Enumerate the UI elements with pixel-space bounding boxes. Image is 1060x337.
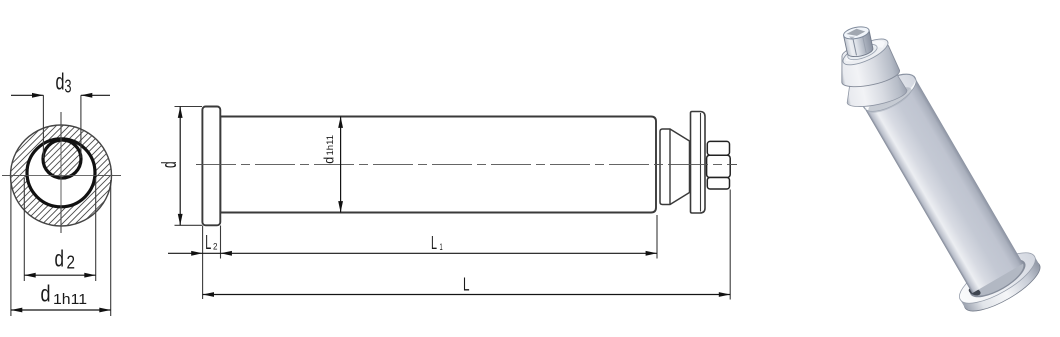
d dimension line — [179, 107, 181, 226]
d extension line bottom — [175, 224, 203, 226]
L arrowhead left — [203, 292, 214, 297]
d3 extension line right — [80, 95, 82, 158]
L1 arrowhead right — [646, 251, 657, 256]
cylinder bottom junction — [966, 254, 1028, 303]
cylinder top face — [858, 67, 922, 118]
svg-text:L: L — [431, 233, 437, 253]
cone transition line — [669, 129, 671, 205]
nut band middle — [707, 155, 731, 177]
L2 extension line right — [220, 226, 222, 259]
body — [220, 117, 656, 213]
small circle d3 (hatched) — [43, 140, 81, 178]
flange head bottom — [958, 252, 1046, 319]
svg-text:2: 2 — [67, 253, 76, 273]
lower seat ring — [843, 69, 909, 111]
d2 arrowhead right — [84, 273, 95, 278]
svg-text:L: L — [463, 274, 470, 294]
svg-text:2: 2 — [213, 242, 218, 252]
d2 extension line right — [95, 178, 97, 281]
d1h11 body arrowhead bottom — [338, 201, 343, 212]
d1h11 extension line right — [110, 180, 112, 316]
shadow of cap on cylinder top face — [865, 82, 915, 117]
L1 arrowhead left — [221, 251, 232, 256]
svg-text:d: d — [321, 157, 337, 164]
outer circle d1h11 (hatched section) — [11, 125, 112, 226]
L extension line right — [729, 190, 731, 300]
bore circle d2 — [27, 139, 95, 207]
L arrowhead right — [719, 292, 730, 297]
washer under nut — [846, 41, 879, 63]
clamp cap assembly (leaning ~12deg) — [831, 20, 908, 111]
d1h11 extension line left — [10, 180, 12, 316]
washer face line — [700, 113, 702, 212]
flange head top face — [953, 243, 1042, 312]
L1 dimension line — [221, 252, 658, 254]
vertical centerline overdraw — [60, 112, 62, 233]
L2 outside dimension line — [168, 252, 203, 254]
L2/L extension line left — [202, 226, 204, 300]
svg-text:1h11: 1h11 — [53, 291, 87, 308]
d2 arrowhead left — [24, 273, 35, 278]
hex nut top face — [842, 25, 870, 41]
head — [202, 107, 220, 226]
horizontal centerline main — [2, 175, 121, 177]
svg-text:L: L — [205, 232, 211, 254]
d1h11 dimension line — [11, 309, 111, 311]
svg-text:d: d — [41, 281, 51, 307]
centerline overdraw middle — [196, 164, 737, 166]
cone top face — [840, 34, 892, 70]
L2 arrowhead — [191, 251, 202, 256]
svg-text:1: 1 — [440, 242, 443, 252]
d arrowhead bottom — [178, 214, 183, 225]
cylinder body — [864, 78, 1023, 293]
d1h11 body dimension line — [340, 117, 342, 213]
L2 dimension line — [203, 252, 221, 254]
nut band bottom — [707, 178, 729, 190]
cone ring — [660, 129, 690, 205]
d3 extension line left — [42, 95, 44, 158]
d arrowhead top — [178, 107, 183, 118]
big cone cap — [834, 32, 902, 91]
d1h11 body arrowhead top — [338, 117, 343, 128]
d extension line top — [175, 106, 203, 108]
L1 extension line right — [656, 215, 658, 259]
d1h11 arrowhead left — [11, 308, 22, 313]
washer — [691, 112, 706, 214]
vertical centerline — [60, 112, 62, 233]
svg-text:1h11: 1h11 — [325, 135, 336, 156]
svg-text:d: d — [56, 68, 65, 94]
d1h11 arrowhead right — [99, 308, 110, 313]
tilted pin cylinder with bottom flange — [846, 60, 1046, 320]
L dimension line — [203, 294, 731, 296]
hex nut — [842, 25, 873, 59]
d2 dimension line — [24, 274, 95, 276]
svg-text:d: d — [159, 161, 181, 168]
svg-text:3: 3 — [65, 77, 72, 97]
top face bright crescent — [864, 78, 921, 119]
horizontal centerline overdraw — [10, 175, 112, 177]
d3 arrowhead right — [81, 93, 92, 98]
d3 arrowhead left — [32, 93, 43, 98]
junction dark wedge — [968, 286, 982, 297]
junction shadow — [964, 252, 1030, 304]
nut band top — [707, 141, 729, 155]
d3 dimension line — [11, 94, 43, 96]
d2 extension line left — [23, 178, 25, 281]
horizontal centerline small bore — [36, 158, 88, 160]
svg-text:d: d — [55, 245, 65, 271]
centerline dash-dot — [196, 164, 737, 166]
